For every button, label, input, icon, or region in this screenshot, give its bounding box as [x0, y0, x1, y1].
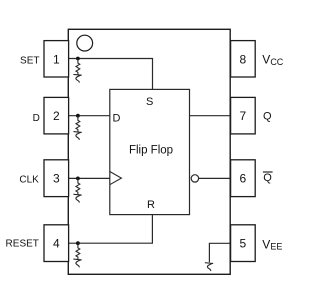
VEE squiggle termination — [205, 263, 213, 271]
pin 3 box — [44, 160, 69, 197]
inversion bubble on Qbar output — [191, 175, 198, 182]
node junction dot pin1 — [76, 57, 80, 61]
svg-text:Q: Q — [263, 172, 272, 184]
wire VEE net: pin5 left and down — [209, 243, 230, 262]
pin 7 box — [231, 97, 256, 133]
pin 6 box — [231, 160, 256, 197]
svg-text:Q: Q — [263, 110, 272, 122]
svg-text:4: 4 — [53, 237, 60, 251]
svg-text:D: D — [113, 113, 121, 125]
svg-text:6: 6 — [240, 172, 247, 186]
resistor R4 (pulldown on RESET) — [73, 243, 81, 267]
wire Qbar net: bubble to pin6 — [199, 177, 231, 179]
svg-text:2: 2 — [53, 109, 60, 123]
wire SET net: pin1 to S input — [69, 59, 153, 90]
svg-text:S: S — [146, 96, 153, 108]
svg-text:D: D — [33, 113, 40, 124]
node junction dot pin2 — [76, 114, 80, 118]
svg-text:3: 3 — [53, 172, 60, 186]
svg-text:Flip Flop: Flip Flop — [129, 144, 173, 156]
flip flop box U1A — [110, 89, 190, 214]
svg-text:1: 1 — [53, 52, 60, 66]
pin 4 box — [44, 225, 69, 262]
IC package outline U1 — [68, 29, 230, 274]
pin 5 box — [231, 225, 256, 262]
pin 1 box — [44, 41, 69, 77]
node junction dot pin4 — [76, 241, 80, 245]
resistor R1 (pulldown on SET) — [73, 59, 81, 83]
clock input triangle — [110, 172, 122, 185]
resistor R3 (pulldown on CLK) — [73, 178, 81, 202]
wire Q net: flip flop to pin7 — [190, 115, 231, 117]
svg-text:CLK: CLK — [19, 175, 39, 186]
pin 1 indicator circle — [77, 35, 93, 51]
wire CLK net: pin3 to clock input — [69, 177, 110, 179]
wire D net: pin2 to D input — [69, 115, 110, 117]
wire RESET net: pin4 to R input — [69, 215, 153, 244]
svg-text:5: 5 — [240, 237, 247, 251]
svg-text:RESET: RESET — [6, 239, 39, 250]
node junction dot pin3 — [76, 177, 80, 181]
pin 2 box — [44, 97, 69, 133]
resistor R2 (pulldown on D) — [73, 116, 81, 140]
svg-text:8: 8 — [240, 52, 247, 66]
pin 8 box — [231, 41, 256, 77]
svg-text:7: 7 — [240, 109, 247, 123]
svg-text:R: R — [147, 199, 155, 211]
svg-text:SET: SET — [20, 55, 39, 66]
